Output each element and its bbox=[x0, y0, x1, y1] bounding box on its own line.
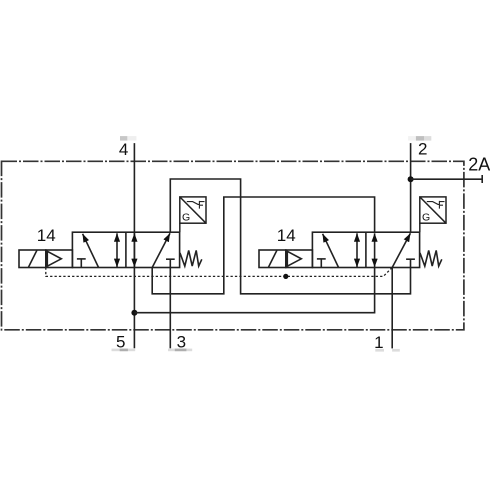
svg-text:5: 5 bbox=[116, 333, 125, 352]
svg-text:3: 3 bbox=[177, 333, 186, 352]
valve V1 body bbox=[72, 232, 179, 267]
V1 double-headed passage arrow B bbox=[133, 233, 135, 267]
label G (V2) bbox=[422, 212, 430, 224]
symbol F with filter line (V2) bbox=[427, 201, 445, 209]
label port 4 bbox=[119, 140, 128, 159]
svg-text:14: 14 bbox=[277, 226, 296, 245]
wire port 2 vertical line bbox=[410, 143, 412, 232]
label G (V1) bbox=[182, 212, 190, 224]
pilot air box G (V1) bbox=[180, 197, 206, 232]
V2 double-headed passage arrow A bbox=[356, 233, 358, 267]
label pilot 14 (V2) bbox=[277, 226, 296, 245]
label port 5 bbox=[116, 333, 125, 352]
label port 1 bbox=[374, 333, 383, 352]
solenoid coil box of pilot 14 (V2) bbox=[259, 250, 286, 268]
V1 left position: flow path arrow bbox=[83, 234, 99, 268]
junction node on port5 wire bbox=[131, 310, 137, 316]
svg-text:G: G bbox=[422, 212, 430, 224]
svg-text:2A: 2A bbox=[468, 155, 490, 175]
wire to port 2A with end terminal bbox=[411, 175, 483, 183]
svg-text:4: 4 bbox=[119, 140, 128, 159]
pilot amplifier box with triangle (V2) bbox=[286, 250, 313, 268]
V2 right position: exhaust T bbox=[406, 258, 415, 260]
pilot supply dashed line bbox=[46, 268, 392, 277]
V1 left position: blocked port T bbox=[77, 259, 86, 268]
svg-text:14: 14 bbox=[37, 226, 56, 245]
label port 2 bbox=[418, 140, 427, 159]
label port 3 bbox=[177, 333, 186, 352]
junction node port 2 / 2A bbox=[408, 176, 414, 182]
pilot air box G (V2) bbox=[420, 197, 446, 232]
svg-text:1: 1 bbox=[374, 333, 383, 352]
port 2 connection marker bbox=[408, 136, 431, 141]
wire port 3 line from valve V1 exhaust bbox=[169, 259, 171, 348]
V1 right position: flow path arrow bbox=[152, 233, 170, 267]
junction node on pilot line bbox=[283, 274, 288, 279]
V2 double-headed passage arrow B bbox=[374, 233, 376, 267]
wire loop: V1 output node to V2 exhaust stem bbox=[170, 179, 410, 294]
label pilot 14 (V1) bbox=[37, 226, 56, 245]
wire port 1 line from valve V2 supply bbox=[391, 268, 393, 349]
valve V2 body bbox=[312, 232, 419, 267]
return spring V2 bbox=[420, 250, 442, 266]
return spring V1 bbox=[180, 250, 202, 266]
port 3 connection marker bbox=[168, 349, 192, 352]
svg-text:G: G bbox=[182, 212, 190, 224]
port 1 connection marker bbox=[375, 349, 400, 352]
V2 right position: flow path arrow bbox=[392, 233, 410, 267]
solenoid coil box of pilot 14 (V1) bbox=[19, 250, 46, 268]
svg-text:2: 2 bbox=[418, 140, 427, 159]
wire: V2 bottom passage to port 5 junction bbox=[134, 268, 374, 313]
port 5 connection marker bbox=[112, 349, 136, 352]
V1 double-headed passage arrow A bbox=[116, 233, 118, 267]
V2 left position: flow path arrow bbox=[323, 234, 339, 268]
port 4 connection marker bbox=[120, 136, 136, 141]
enclosure dash-dot boundary bbox=[2, 161, 464, 329]
V2 left position: blocked port T bbox=[317, 259, 326, 268]
pilot amplifier box with triangle (V1) bbox=[46, 250, 73, 268]
label port 2A bbox=[468, 155, 490, 175]
wire port 4 / port 5 vertical line bbox=[133, 143, 135, 348]
symbol F with filter line (V1) bbox=[187, 201, 205, 209]
wire loop: V1 supply stem to V2 top passage bbox=[152, 197, 374, 294]
V1 right position: exhaust T bbox=[166, 258, 175, 260]
